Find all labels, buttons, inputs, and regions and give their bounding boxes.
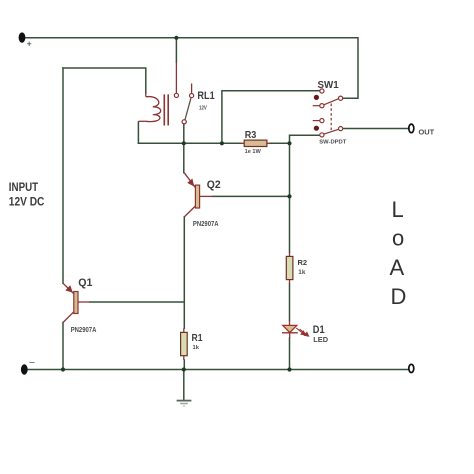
svg-text:PN2907A: PN2907A [71, 327, 97, 334]
svg-text:1k: 1k [298, 269, 306, 276]
svg-text:R2: R2 [298, 258, 308, 267]
svg-text:OUT: OUT [419, 128, 435, 137]
svg-text:A: A [390, 255, 405, 280]
svg-text:1e 1W: 1e 1W [245, 149, 262, 155]
svg-text:D: D [391, 284, 407, 309]
svg-text:RL1: RL1 [197, 90, 214, 102]
svg-text:R1: R1 [192, 333, 203, 344]
svg-text:R3: R3 [245, 130, 257, 141]
svg-text:1k: 1k [193, 345, 200, 351]
svg-text:+: + [27, 39, 32, 49]
svg-text:–: – [30, 357, 35, 367]
svg-text:12V: 12V [199, 105, 207, 111]
svg-text:PN2907A: PN2907A [193, 221, 219, 228]
svg-text:Q1: Q1 [78, 277, 92, 289]
svg-text:INPUT: INPUT [9, 180, 39, 194]
svg-text:12V DC: 12V DC [9, 194, 45, 208]
svg-text:Q2: Q2 [207, 179, 221, 191]
svg-text:o: o [392, 226, 404, 251]
svg-text:SW-DPDT: SW-DPDT [319, 140, 346, 146]
svg-text:LED: LED [313, 335, 328, 344]
svg-text:SW1: SW1 [318, 79, 339, 91]
svg-text:L: L [392, 197, 404, 222]
